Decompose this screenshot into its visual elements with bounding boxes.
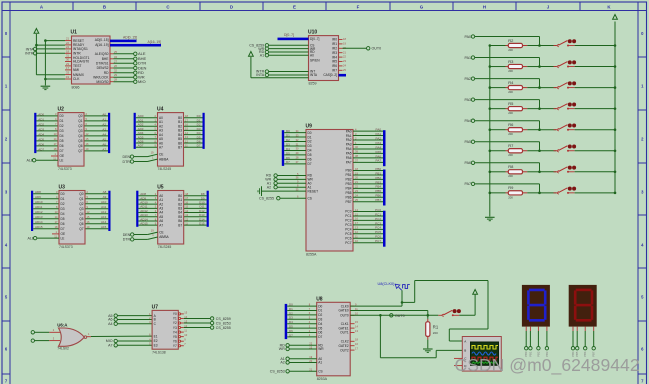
svg-text:IR7: IR7 bbox=[332, 69, 337, 73]
svg-text:Q3: Q3 bbox=[78, 129, 82, 133]
svg-text:D4: D4 bbox=[61, 212, 65, 216]
svg-text:74LS138: 74LS138 bbox=[152, 351, 166, 355]
svg-text:AD15: AD15 bbox=[140, 222, 148, 226]
svg-text:PA0: PA0 bbox=[464, 35, 471, 39]
svg-text:PC7: PC7 bbox=[345, 241, 351, 245]
svg-text:24: 24 bbox=[66, 45, 69, 49]
svg-text:Q5: Q5 bbox=[79, 217, 83, 221]
svg-text:200: 200 bbox=[508, 90, 513, 94]
svg-text:RESET: RESET bbox=[308, 189, 319, 193]
svg-text:D1: D1 bbox=[286, 133, 290, 137]
svg-text:D2: D2 bbox=[61, 202, 65, 206]
svg-text:A1: A1 bbox=[260, 53, 264, 57]
svg-text:PA6: PA6 bbox=[346, 156, 352, 160]
svg-text:A[16..19]: A[16..19] bbox=[148, 40, 162, 44]
svg-text:29: 29 bbox=[114, 73, 117, 77]
svg-text:D0: D0 bbox=[289, 303, 293, 307]
svg-text:PB6: PB6 bbox=[375, 194, 381, 198]
svg-text:R7: R7 bbox=[508, 143, 514, 148]
svg-text:D0: D0 bbox=[308, 131, 312, 135]
svg-text:17: 17 bbox=[66, 66, 69, 70]
svg-text:U7: U7 bbox=[152, 305, 159, 311]
svg-text:D3: D3 bbox=[308, 144, 312, 148]
svg-text:D4: D4 bbox=[60, 134, 64, 138]
svg-text:PC2: PC2 bbox=[345, 219, 351, 223]
svg-text:D5: D5 bbox=[289, 325, 293, 329]
svg-text:WR: WR bbox=[279, 347, 285, 351]
svg-text:200: 200 bbox=[508, 174, 513, 178]
svg-text:INTR: INTR bbox=[25, 52, 34, 56]
svg-text:PA3: PA3 bbox=[464, 98, 471, 102]
svg-text:A2: A2 bbox=[102, 122, 106, 126]
svg-text:PC5: PC5 bbox=[345, 232, 351, 236]
svg-text:D0: D0 bbox=[286, 129, 290, 133]
svg-text:PA3: PA3 bbox=[346, 143, 352, 147]
svg-text:AD4: AD4 bbox=[38, 132, 44, 136]
svg-text:D7: D7 bbox=[286, 160, 290, 164]
svg-text:D7: D7 bbox=[60, 149, 64, 153]
svg-text:27: 27 bbox=[114, 59, 117, 63]
svg-text:D7: D7 bbox=[289, 333, 293, 337]
svg-text:R2: R2 bbox=[508, 38, 514, 43]
svg-text:D1: D1 bbox=[318, 309, 322, 313]
svg-text:IR2: IR2 bbox=[332, 47, 337, 51]
svg-text:D3: D3 bbox=[318, 318, 322, 322]
svg-text:WR/LOCK: WR/LOCK bbox=[93, 75, 109, 79]
svg-text:AD2: AD2 bbox=[38, 122, 44, 126]
svg-text:PA5: PA5 bbox=[464, 140, 471, 144]
svg-text:IR1: IR1 bbox=[332, 42, 337, 46]
svg-text:AD6: AD6 bbox=[38, 142, 44, 146]
svg-text:PA6: PA6 bbox=[376, 154, 382, 158]
svg-text:U2: U2 bbox=[58, 107, 65, 113]
svg-text:AD1: AD1 bbox=[38, 117, 44, 121]
svg-text:R9: R9 bbox=[508, 185, 514, 190]
svg-text:WR: WR bbox=[318, 347, 324, 351]
svg-text:D2: D2 bbox=[289, 311, 293, 315]
svg-text:8255A: 8255A bbox=[306, 252, 317, 256]
svg-text:PB7: PB7 bbox=[345, 200, 351, 204]
svg-text:PA7: PA7 bbox=[346, 161, 352, 165]
svg-text:PA6: PA6 bbox=[464, 161, 471, 165]
svg-text:A15: A15 bbox=[101, 225, 107, 229]
svg-text:Y7: Y7 bbox=[173, 344, 177, 348]
svg-text:PA1: PA1 bbox=[346, 134, 352, 138]
svg-text:A1: A1 bbox=[102, 117, 106, 121]
svg-text:MN/MX: MN/MX bbox=[73, 73, 85, 77]
svg-text:R5: R5 bbox=[508, 101, 514, 106]
svg-text:R3: R3 bbox=[508, 59, 514, 64]
svg-text:SP/EN: SP/EN bbox=[310, 59, 320, 63]
svg-text:LE: LE bbox=[60, 158, 64, 162]
svg-text:CLK2: CLK2 bbox=[341, 340, 349, 344]
svg-text:D6: D6 bbox=[289, 329, 293, 333]
svg-text:CS_8259: CS_8259 bbox=[216, 317, 231, 321]
svg-text:DEN: DEN bbox=[123, 155, 131, 159]
svg-text:D4: D4 bbox=[289, 320, 293, 324]
svg-text:200: 200 bbox=[508, 48, 513, 52]
svg-text:INTR: INTR bbox=[73, 52, 81, 56]
svg-text:PB2: PB2 bbox=[345, 178, 351, 182]
svg-text:D6: D6 bbox=[61, 222, 65, 226]
svg-text:B7: B7 bbox=[178, 145, 182, 149]
svg-text:A14: A14 bbox=[101, 220, 107, 224]
svg-text:23: 23 bbox=[66, 62, 69, 66]
svg-text:PA1: PA1 bbox=[464, 56, 471, 60]
svg-text:D5: D5 bbox=[61, 217, 65, 221]
svg-text:A7: A7 bbox=[159, 145, 163, 149]
svg-text:PA7: PA7 bbox=[464, 182, 471, 186]
svg-text:PA4: PA4 bbox=[346, 147, 352, 151]
svg-text:OUT0: OUT0 bbox=[372, 47, 382, 51]
svg-text:D3: D3 bbox=[60, 129, 64, 133]
svg-text:Q1: Q1 bbox=[78, 119, 82, 123]
svg-text:74LS245: 74LS245 bbox=[158, 245, 172, 249]
svg-text:A13: A13 bbox=[101, 215, 107, 219]
svg-text:PB0: PB0 bbox=[375, 167, 381, 171]
svg-text:74LS02: 74LS02 bbox=[57, 346, 69, 350]
svg-text:Y3: Y3 bbox=[173, 326, 177, 330]
svg-text:U5: U5 bbox=[157, 185, 164, 191]
svg-text:D5: D5 bbox=[308, 153, 312, 157]
svg-text:8086: 8086 bbox=[72, 86, 80, 90]
svg-text:PC3: PC3 bbox=[345, 223, 351, 227]
svg-text:D4: D4 bbox=[318, 322, 322, 326]
svg-text:8253A: 8253A bbox=[317, 377, 328, 381]
svg-text:OUT0: OUT0 bbox=[395, 314, 405, 318]
svg-text:A4: A4 bbox=[108, 322, 112, 326]
svg-text:PB1: PB1 bbox=[345, 173, 351, 177]
svg-text:IR3: IR3 bbox=[332, 51, 337, 55]
svg-text:A9: A9 bbox=[103, 195, 107, 199]
svg-text:CS: CS bbox=[308, 196, 312, 200]
svg-text:PB4: PB4 bbox=[345, 187, 351, 191]
svg-text:PB3: PB3 bbox=[345, 182, 351, 186]
svg-text:DTR: DTR bbox=[123, 238, 131, 242]
svg-text:OUT1: OUT1 bbox=[340, 331, 349, 335]
svg-text:GATE1: GATE1 bbox=[338, 326, 348, 330]
svg-text:R6: R6 bbox=[508, 122, 514, 127]
svg-text:18: 18 bbox=[66, 49, 69, 53]
svg-text:PB6: PB6 bbox=[345, 195, 351, 199]
svg-text:U1: U1 bbox=[71, 30, 78, 36]
svg-text:26: 26 bbox=[114, 64, 117, 68]
svg-text:D7: D7 bbox=[197, 144, 201, 148]
svg-text:25: 25 bbox=[114, 50, 117, 54]
svg-text:A12: A12 bbox=[101, 210, 107, 214]
svg-text:D4: D4 bbox=[286, 147, 290, 151]
svg-text:PA2: PA2 bbox=[376, 136, 382, 140]
svg-text:D6: D6 bbox=[318, 331, 322, 335]
svg-text:INTA: INTA bbox=[310, 73, 318, 77]
svg-text:30: 30 bbox=[66, 58, 69, 62]
svg-text:PA7: PA7 bbox=[376, 159, 382, 163]
svg-text:U8: U8 bbox=[316, 296, 323, 302]
svg-text:D[0..7]: D[0..7] bbox=[310, 37, 320, 41]
svg-text:D0: D0 bbox=[60, 114, 64, 118]
svg-text:DTR: DTR bbox=[123, 160, 131, 164]
svg-text:DEN/S2: DEN/S2 bbox=[97, 66, 109, 70]
svg-text:PC7: PC7 bbox=[375, 239, 381, 243]
svg-text:A6: A6 bbox=[102, 142, 106, 146]
svg-text:Q3: Q3 bbox=[79, 207, 83, 211]
svg-text:IR6: IR6 bbox=[332, 64, 337, 68]
svg-text:E: E bbox=[293, 4, 296, 9]
svg-text:AD11: AD11 bbox=[35, 205, 43, 209]
svg-text:PB0: PB0 bbox=[345, 169, 351, 173]
svg-text:PC4: PC4 bbox=[345, 228, 351, 232]
svg-text:D1: D1 bbox=[61, 197, 65, 201]
svg-text:A10: A10 bbox=[101, 200, 107, 204]
svg-text:21: 21 bbox=[66, 37, 69, 41]
svg-text:CAS[0..2]: CAS[0..2] bbox=[323, 73, 337, 77]
svg-text:74LS245: 74LS245 bbox=[158, 167, 172, 171]
svg-text:31: 31 bbox=[66, 54, 69, 58]
svg-text:A1: A1 bbox=[318, 361, 322, 365]
svg-text:A5: A5 bbox=[102, 137, 106, 141]
svg-text:D1: D1 bbox=[308, 135, 312, 139]
svg-text:32: 32 bbox=[114, 69, 117, 73]
svg-text:OUT2: OUT2 bbox=[340, 348, 349, 352]
svg-text:PA2: PA2 bbox=[464, 77, 471, 81]
svg-text:D4: D4 bbox=[308, 149, 312, 153]
svg-text:AD3: AD3 bbox=[38, 127, 44, 131]
svg-text:CS_8253: CS_8253 bbox=[270, 370, 285, 374]
svg-text:A: A bbox=[464, 339, 466, 343]
svg-text:ALE/QS0: ALE/QS0 bbox=[95, 52, 109, 56]
svg-text:D6: D6 bbox=[60, 144, 64, 148]
svg-text:74LS373: 74LS373 bbox=[59, 245, 73, 249]
svg-text:A0: A0 bbox=[102, 112, 106, 116]
svg-text:CLK: CLK bbox=[73, 77, 80, 81]
svg-text:PC2: PC2 bbox=[375, 217, 381, 221]
svg-text:D5: D5 bbox=[286, 151, 290, 155]
svg-text:22: 22 bbox=[66, 41, 69, 45]
svg-text:PC6: PC6 bbox=[375, 235, 381, 239]
svg-text:CE: CE bbox=[159, 230, 163, 234]
svg-text:PB7: PB7 bbox=[375, 198, 381, 202]
svg-text:H: H bbox=[483, 4, 486, 9]
svg-text:A3: A3 bbox=[102, 127, 106, 131]
svg-text:U6:A: U6:A bbox=[57, 323, 68, 328]
svg-text:INTA/QS1: INTA/QS1 bbox=[73, 47, 88, 51]
svg-text:INTA: INTA bbox=[26, 47, 35, 51]
svg-text:PC0: PC0 bbox=[345, 210, 351, 214]
svg-text:AD10: AD10 bbox=[35, 200, 43, 204]
svg-text:A2: A2 bbox=[267, 185, 271, 189]
svg-text:PB3: PB3 bbox=[375, 180, 381, 184]
svg-text:GATE0: GATE0 bbox=[338, 309, 348, 313]
svg-text:PA1: PA1 bbox=[376, 132, 382, 136]
svg-text:U10: U10 bbox=[308, 30, 317, 36]
svg-text:AD8: AD8 bbox=[35, 190, 41, 194]
svg-text:PA4: PA4 bbox=[376, 145, 382, 149]
svg-text:AD[0..15]: AD[0..15] bbox=[95, 38, 109, 42]
svg-text:AB/BA: AB/BA bbox=[159, 235, 169, 239]
svg-text:IR4: IR4 bbox=[332, 55, 337, 59]
svg-text:U4: U4 bbox=[157, 107, 164, 113]
svg-text:OUT0: OUT0 bbox=[340, 314, 349, 318]
svg-text:D1: D1 bbox=[60, 119, 64, 123]
svg-text:D7: D7 bbox=[61, 227, 65, 231]
svg-text:R8: R8 bbox=[508, 164, 514, 169]
svg-text:U3: U3 bbox=[59, 185, 66, 191]
svg-text:D5: D5 bbox=[60, 139, 64, 143]
svg-text:A7: A7 bbox=[102, 147, 106, 151]
svg-text:PA0: PA0 bbox=[346, 129, 352, 133]
svg-text:U9: U9 bbox=[306, 124, 313, 130]
svg-text:D1: D1 bbox=[289, 307, 293, 311]
svg-text:AD9: AD9 bbox=[35, 195, 41, 199]
svg-text:A7: A7 bbox=[159, 223, 163, 227]
svg-text:INTA: INTA bbox=[256, 73, 265, 77]
svg-text:PA3: PA3 bbox=[376, 141, 382, 145]
svg-text:D15: D15 bbox=[199, 222, 205, 226]
svg-text:AD7: AD7 bbox=[38, 147, 44, 151]
svg-text:R4: R4 bbox=[508, 80, 514, 85]
svg-text:A4: A4 bbox=[102, 132, 106, 136]
svg-text:NMI: NMI bbox=[73, 68, 79, 72]
svg-text:DT/R/S1: DT/R/S1 bbox=[96, 62, 109, 66]
svg-text:IR0: IR0 bbox=[332, 38, 337, 42]
svg-text:D: D bbox=[230, 4, 233, 9]
svg-text:HLDA/GT0: HLDA/GT0 bbox=[73, 60, 89, 64]
svg-text:D0: D0 bbox=[318, 304, 322, 308]
svg-text:33: 33 bbox=[66, 71, 69, 75]
svg-text:Q0: Q0 bbox=[78, 114, 82, 118]
svg-text:PB1: PB1 bbox=[375, 171, 381, 175]
svg-text:PB4: PB4 bbox=[375, 185, 381, 189]
svg-text:U8(CLK0): U8(CLK0) bbox=[378, 282, 396, 286]
svg-text:PC1: PC1 bbox=[375, 212, 381, 216]
svg-text:PB2: PB2 bbox=[375, 176, 381, 180]
svg-text:GATE2: GATE2 bbox=[338, 344, 348, 348]
svg-text:Q2: Q2 bbox=[79, 202, 83, 206]
svg-text:A8: A8 bbox=[103, 190, 107, 194]
svg-text:PA2: PA2 bbox=[346, 138, 352, 142]
svg-text:34: 34 bbox=[114, 55, 117, 59]
svg-text:Y6: Y6 bbox=[173, 339, 177, 343]
svg-text:AD[0..15]: AD[0..15] bbox=[123, 35, 137, 39]
svg-text:D[0..7]: D[0..7] bbox=[284, 33, 294, 37]
svg-text:AD7: AD7 bbox=[138, 144, 144, 148]
svg-text:200: 200 bbox=[508, 195, 513, 199]
svg-text:PC6: PC6 bbox=[345, 236, 351, 240]
svg-text:PC4: PC4 bbox=[375, 226, 381, 230]
svg-text:CS: CS bbox=[318, 370, 322, 374]
svg-text:200: 200 bbox=[508, 132, 513, 136]
svg-text:B: B bbox=[464, 349, 466, 353]
svg-text:200: 200 bbox=[433, 331, 438, 335]
svg-text:Y0: Y0 bbox=[173, 312, 177, 316]
svg-text:PC5: PC5 bbox=[375, 230, 381, 234]
svg-text:Q5: Q5 bbox=[78, 139, 82, 143]
svg-text:AD0: AD0 bbox=[38, 112, 44, 116]
svg-text:PC1: PC1 bbox=[345, 214, 351, 218]
svg-text:E1: E1 bbox=[154, 334, 158, 338]
svg-text:RD: RD bbox=[104, 71, 109, 75]
svg-text:A2: A2 bbox=[280, 361, 284, 365]
svg-text:CSDN @m0_62489442: CSDN @m0_62489442 bbox=[455, 355, 640, 376]
svg-text:D3: D3 bbox=[286, 142, 290, 146]
svg-text:PC0: PC0 bbox=[375, 208, 381, 212]
svg-text:BHE: BHE bbox=[102, 57, 110, 61]
svg-text:D3: D3 bbox=[289, 316, 293, 320]
svg-text:F: F bbox=[357, 4, 360, 9]
svg-text:M/IO/S0: M/IO/S0 bbox=[96, 80, 108, 84]
svg-text:PB5: PB5 bbox=[375, 189, 381, 193]
svg-text:Y1: Y1 bbox=[173, 317, 177, 321]
svg-text:Q0: Q0 bbox=[79, 192, 83, 196]
svg-text:PA5: PA5 bbox=[346, 152, 352, 156]
svg-text:B7: B7 bbox=[178, 223, 182, 227]
svg-text:R1: R1 bbox=[433, 325, 439, 330]
svg-text:AD13: AD13 bbox=[35, 215, 43, 219]
svg-text:8259: 8259 bbox=[309, 82, 317, 86]
svg-text:19: 19 bbox=[66, 75, 69, 79]
svg-text:AD5: AD5 bbox=[38, 137, 44, 141]
svg-text:200: 200 bbox=[508, 153, 513, 157]
svg-text:A0: A0 bbox=[310, 53, 314, 57]
svg-text:Y5: Y5 bbox=[173, 335, 177, 339]
svg-text:E3: E3 bbox=[154, 344, 158, 348]
svg-text:D0: D0 bbox=[61, 192, 65, 196]
svg-text:Y2: Y2 bbox=[173, 321, 177, 325]
svg-text:AD12: AD12 bbox=[35, 210, 43, 214]
svg-text:CS_8255: CS_8255 bbox=[259, 196, 274, 200]
svg-text:IR5: IR5 bbox=[332, 60, 337, 64]
svg-text:PC3: PC3 bbox=[375, 221, 381, 225]
svg-text:G: G bbox=[420, 4, 424, 9]
svg-text:D2: D2 bbox=[60, 124, 64, 128]
svg-text:AB/BA: AB/BA bbox=[159, 157, 169, 161]
svg-text:D2: D2 bbox=[286, 138, 290, 142]
svg-text:A11: A11 bbox=[101, 205, 106, 209]
svg-text:PA0: PA0 bbox=[376, 128, 382, 132]
svg-text:D5: D5 bbox=[318, 326, 322, 330]
svg-text:B: B bbox=[103, 4, 106, 9]
svg-text:200: 200 bbox=[508, 111, 513, 115]
svg-text:74LS373: 74LS373 bbox=[58, 167, 72, 171]
svg-text:D2: D2 bbox=[318, 313, 322, 317]
svg-text:Q1: Q1 bbox=[79, 197, 83, 201]
svg-text:Q4: Q4 bbox=[79, 212, 83, 216]
svg-text:Q6: Q6 bbox=[78, 144, 82, 148]
svg-text:D6: D6 bbox=[286, 156, 290, 160]
svg-text:LE: LE bbox=[61, 236, 65, 240]
svg-text:D2: D2 bbox=[308, 140, 312, 144]
svg-text:D3: D3 bbox=[61, 207, 65, 211]
svg-text:D6: D6 bbox=[308, 158, 312, 162]
svg-text:D7: D7 bbox=[318, 335, 322, 339]
svg-text:Q7: Q7 bbox=[78, 149, 82, 153]
svg-text:MIO: MIO bbox=[138, 79, 146, 84]
svg-text:DEN: DEN bbox=[123, 233, 131, 237]
svg-text:CS_8255: CS_8255 bbox=[216, 326, 231, 330]
svg-text:A7: A7 bbox=[108, 344, 112, 348]
svg-text:PA4: PA4 bbox=[464, 119, 471, 123]
svg-text:28: 28 bbox=[114, 78, 117, 82]
svg-text:Q4: Q4 bbox=[78, 134, 82, 138]
svg-text:CE: CE bbox=[159, 152, 163, 156]
svg-text:PA5: PA5 bbox=[376, 150, 382, 154]
svg-text:D7: D7 bbox=[308, 162, 312, 166]
svg-text:Q2: Q2 bbox=[78, 124, 82, 128]
svg-text:AD15: AD15 bbox=[35, 225, 43, 229]
svg-text:200: 200 bbox=[508, 69, 513, 73]
svg-text:Q7: Q7 bbox=[79, 227, 83, 231]
svg-text:CS_8253: CS_8253 bbox=[216, 321, 231, 325]
